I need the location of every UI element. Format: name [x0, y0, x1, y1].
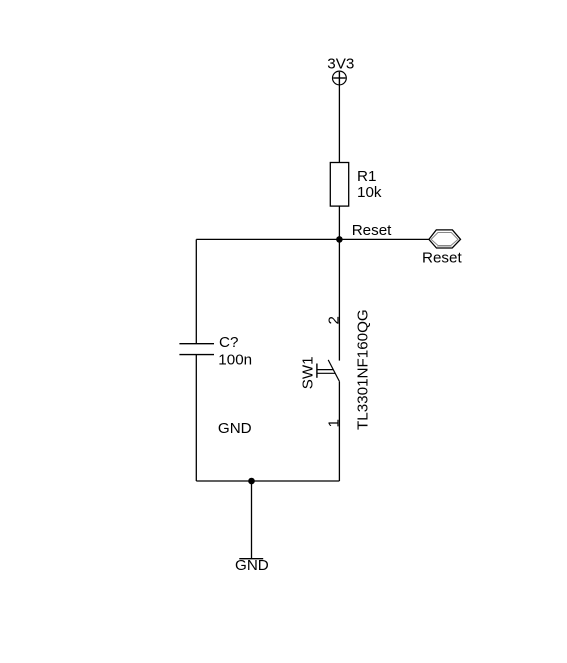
svg-text:10k: 10k: [357, 184, 382, 201]
svg-text:100n: 100n: [218, 352, 252, 369]
svg-text:SW1: SW1: [300, 356, 317, 389]
svg-text:Reset: Reset: [422, 250, 462, 267]
svg-text:GND: GND: [235, 557, 269, 574]
svg-text:3V3: 3V3: [327, 56, 354, 73]
svg-text:C?: C?: [219, 334, 238, 351]
svg-text:Reset: Reset: [352, 222, 392, 239]
svg-text:GND: GND: [218, 420, 252, 437]
svg-text:1: 1: [325, 419, 342, 427]
svg-text:TL3301NF160QG: TL3301NF160QG: [354, 309, 371, 430]
svg-text:R1: R1: [357, 168, 376, 185]
svg-text:2: 2: [325, 316, 342, 324]
